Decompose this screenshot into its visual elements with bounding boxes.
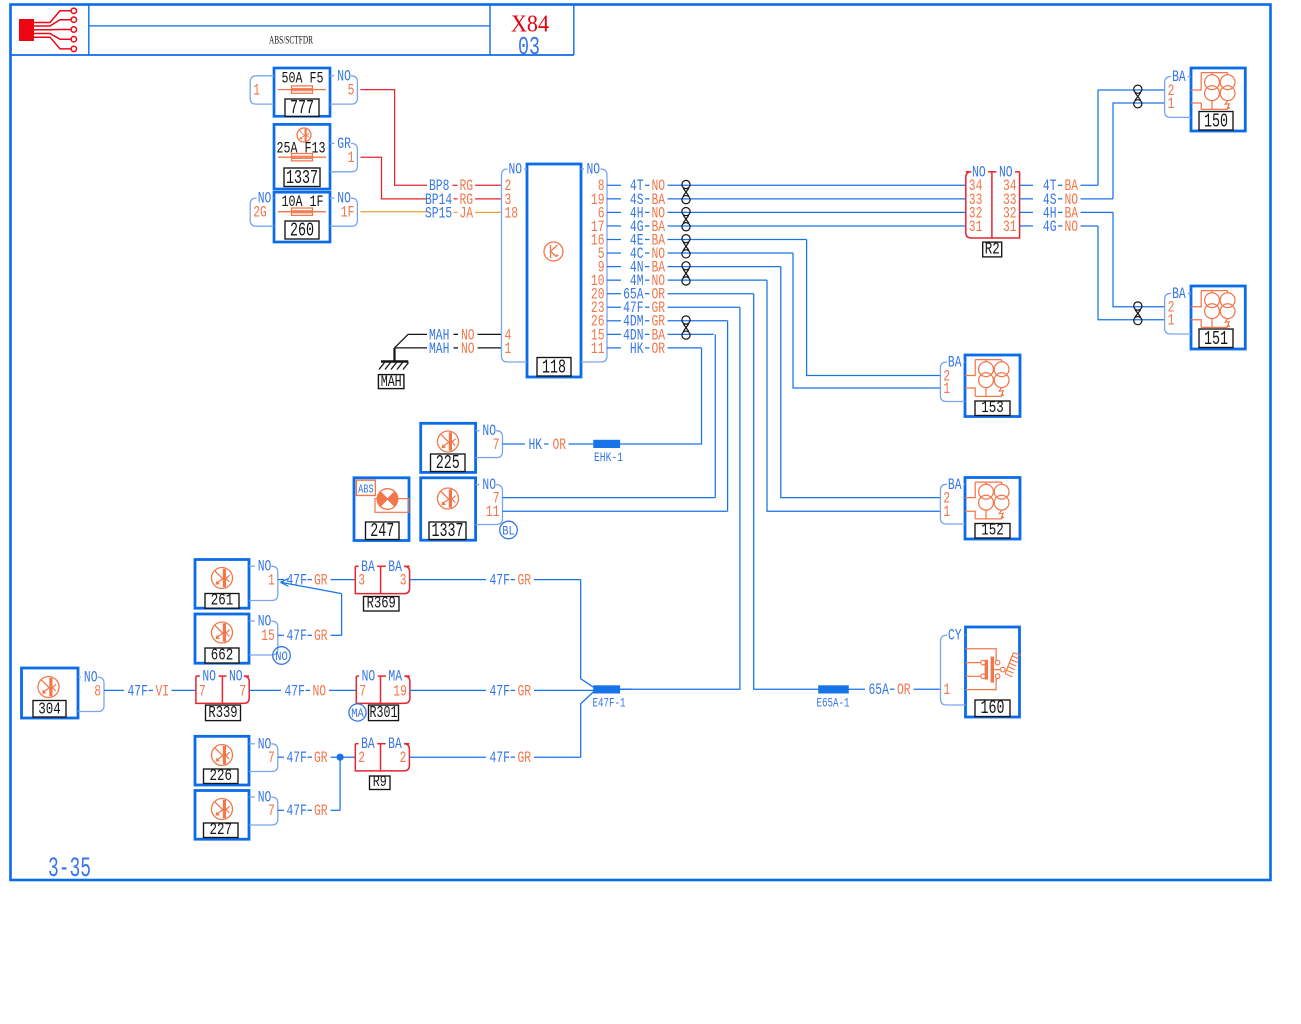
svg-text:JA: JA (460, 204, 474, 222)
svg-text:2: 2 (400, 749, 407, 767)
wire 4N-BA 118 pin9 to 152 pin2 (607, 259, 940, 498)
svg-text:227: 227 (210, 821, 233, 840)
svg-text:226: 226 (210, 767, 233, 786)
svg-text:19: 19 (393, 682, 407, 700)
label 1337 (284, 167, 320, 189)
connector 226 box (195, 736, 249, 785)
wheel sensor 152 box (965, 478, 1020, 540)
splice EHK-1 (594, 440, 623, 465)
svg-text:7: 7 (239, 682, 246, 700)
pin bracket 150 BA pins 2 1 (1165, 68, 1191, 117)
svg-text:R339: R339 (208, 704, 237, 723)
ABS tag in 247 (356, 480, 375, 496)
svg-text:47F: 47F (490, 682, 510, 700)
pin bracket 1337 NO pins 7 11 (476, 476, 503, 524)
wire 65A-OR splice E65A-1 to 160 pin1 (848, 681, 940, 699)
wire E47F-1 to 47F vertical (620, 688, 632, 690)
svg-text:MAH: MAH (381, 373, 402, 391)
wire BP14-RG from 1337 pin1 to 118 pin3 (360, 157, 501, 209)
svg-text:1: 1 (505, 340, 512, 358)
svg-text:160: 160 (981, 697, 1005, 719)
svg-text:MAH: MAH (429, 340, 449, 358)
svg-text:1337: 1337 (432, 520, 464, 542)
svg-text:1: 1 (1168, 312, 1175, 330)
wire 4DM-GR 118 pin26 to 1337 pin11 (607, 313, 728, 512)
svg-text:GR: GR (314, 749, 328, 767)
connector R369 (355, 558, 409, 594)
svg-text:7: 7 (359, 682, 366, 700)
svg-text:11: 11 (591, 340, 605, 358)
label 227 (204, 821, 239, 840)
fuse F13 box 1337 (274, 124, 330, 189)
svg-text:25A F13: 25A F13 (277, 140, 326, 158)
wire 4C-NO 118 pin5 to 153 pin1 (607, 245, 940, 388)
ignition key symbol in 118 (544, 242, 563, 261)
wire 47F-GR 226 pin7 to R9 (278, 749, 356, 767)
wire 4E-BA 118 pin16 to 153 pin2 (607, 231, 940, 375)
header logo cell (11, 5, 574, 56)
header logo harness icon (19, 8, 77, 52)
svg-text:7: 7 (199, 682, 206, 700)
twisted pair 4N/4M (682, 262, 690, 285)
svg-text:7: 7 (493, 436, 500, 454)
label R369 (364, 595, 400, 614)
svg-text:1: 1 (943, 503, 950, 521)
twisted pair at 150 (1134, 85, 1142, 108)
circled MA (349, 704, 366, 721)
connector 227 box (195, 791, 249, 840)
wire 1337 pin11 to 4DM vertical (503, 510, 728, 512)
connector 261 box (195, 560, 249, 609)
svg-text:15: 15 (261, 627, 275, 645)
svg-text:31: 31 (1003, 218, 1017, 236)
fuse 1F box 260 (274, 192, 330, 242)
pin bracket 225 NO pin 7 (476, 422, 503, 457)
wire 47F-GR R9 pin2 to splice E47F-1 (409, 692, 593, 768)
svg-text:47F: 47F (287, 749, 307, 767)
svg-text:151: 151 (1204, 328, 1228, 350)
svg-text:2G: 2G (253, 204, 267, 222)
svg-text:R301: R301 (370, 704, 398, 723)
wire 4G-BA 118 pin17 to R2 pin31 (607, 218, 966, 236)
svg-text:1: 1 (1168, 95, 1175, 113)
svg-text:50A F5: 50A F5 (282, 70, 324, 88)
svg-text:SP15: SP15 (425, 204, 452, 222)
svg-text:11: 11 (486, 503, 500, 521)
pin bracket 151 BA pins 2 1 (1165, 285, 1191, 334)
label R339 (206, 704, 241, 723)
svg-text:118: 118 (542, 357, 566, 379)
svg-text:1: 1 (348, 149, 355, 167)
wire 4H-BA R2 pin32 to 151 pin2 (1020, 204, 1165, 306)
label 247 (366, 520, 400, 542)
ABS computer 118 box (527, 164, 581, 377)
connector 304 box (22, 668, 79, 718)
svg-text:NO: NO (461, 340, 475, 358)
wire 47F-NO R339 to R301 (249, 682, 356, 700)
svg-text:304: 304 (38, 701, 61, 720)
label 152 (975, 522, 1010, 541)
svg-text:NO: NO (275, 649, 288, 664)
svg-text:5: 5 (348, 82, 355, 100)
pin bracket 304 NO pin 8 (78, 669, 104, 712)
socket symbol in 160 (966, 649, 1021, 690)
svg-text:VI: VI (156, 682, 170, 700)
label 662 (205, 647, 239, 666)
svg-text:HK: HK (529, 436, 543, 454)
wire 4S-NO R2 pin33 to 150 pin1 (1020, 103, 1165, 209)
connector R339 (196, 668, 249, 704)
svg-text:7: 7 (268, 749, 275, 767)
connector R301 (356, 668, 410, 704)
lamp symbol in 247 (375, 489, 409, 513)
svg-text:18: 18 (505, 204, 519, 222)
svg-text:47F: 47F (128, 682, 148, 700)
svg-text:3: 3 (400, 572, 407, 590)
junction merge arrow from 662 (281, 579, 342, 636)
label 1337 lower (429, 520, 466, 542)
svg-text:GR: GR (518, 572, 532, 590)
svg-text:3: 3 (358, 572, 365, 590)
wire 47F-GR 662 pin15 (278, 627, 342, 645)
svg-text:662: 662 (211, 647, 234, 666)
svg-text:261: 261 (211, 592, 234, 611)
label R9 (370, 773, 391, 791)
pin bracket 226 NO pin 7 (249, 735, 278, 771)
label MAH (378, 373, 404, 391)
connector 225 box (421, 423, 476, 472)
svg-text:ABS/SCTFDR: ABS/SCTFDR (269, 35, 313, 47)
wire 4M-NO 118 pin10 to 152 pin1 (607, 272, 940, 511)
wire HK-OR 118 pin11 to splice EHK-1 (607, 340, 702, 444)
connector R2 (966, 163, 1020, 238)
svg-text:GR: GR (314, 572, 328, 590)
pin bracket 777 right NO pin 5 (330, 67, 357, 104)
twisted pair at 151 (1134, 302, 1142, 325)
svg-text:GR: GR (314, 627, 328, 645)
svg-text:MA: MA (351, 706, 364, 721)
svg-text:153: 153 (981, 399, 1004, 418)
label 118 (537, 357, 571, 379)
svg-text:EHK-1: EHK-1 (594, 450, 623, 465)
pin bracket 160 CY pin 1 (941, 627, 966, 705)
label R301 (369, 704, 399, 723)
wire 47F-GR R369 pin3 to splice E47F-1 (410, 572, 594, 688)
label 151 (1199, 328, 1233, 350)
svg-text:R9: R9 (373, 773, 387, 791)
svg-text:3-35: 3-35 (48, 854, 91, 885)
wire 1337 pin7 to 4DN vertical (503, 497, 716, 499)
pin bracket 227 NO pin 7 (249, 789, 278, 826)
svg-text:777: 777 (290, 97, 314, 119)
wire 4H-NO 118 pin6 to R2 pin32 (607, 204, 966, 222)
pin bracket 153 BA pins 2 1 (940, 354, 965, 402)
fuse F5 box 777 (274, 68, 330, 116)
twisted pair 4DM/4DN (682, 316, 690, 339)
wire 47F-GR R301 pin19 to splice E47F-1 (410, 682, 594, 700)
svg-text:150: 150 (1204, 111, 1228, 133)
wire 4T-NO 118 pin8 to R2 pin34 (607, 177, 966, 195)
svg-text:1: 1 (943, 380, 950, 398)
splice E65A-1 (817, 686, 850, 711)
label R2 (983, 240, 1002, 259)
wire 4S-BA 118 pin19 to R2 pin33 (607, 191, 966, 209)
twisted pair 4E/4C (682, 235, 690, 258)
pin bracket 260 right NO pin 1F (330, 190, 357, 227)
label 160 (975, 697, 1010, 719)
label 777 (285, 97, 319, 119)
svg-text:HK: HK (630, 340, 644, 358)
svg-text:1: 1 (268, 572, 275, 590)
connector 1337 box (421, 478, 476, 540)
label 153 (975, 399, 1010, 418)
svg-text:BL: BL (502, 524, 515, 539)
wheel sensor 153 box (965, 355, 1020, 417)
wire 47F-VI 304 pin8 to R339 pin7 (104, 682, 196, 700)
svg-text:GR: GR (518, 749, 532, 767)
pin bracket 1337 right GR pin 1 (330, 135, 357, 172)
svg-text:2: 2 (358, 749, 365, 767)
svg-text:NO: NO (509, 161, 523, 179)
junction dot (337, 754, 344, 761)
wire 65A-OR 118 pin20 to splice E65A-1 (607, 286, 819, 690)
circled BL (500, 521, 518, 539)
connector 662 box (195, 614, 249, 663)
wire 47F-GR 118 pin23 to splice E47F-1 (607, 299, 740, 689)
wire 4DN-BA 118 pin15 to 1337 pin7 (607, 326, 715, 497)
svg-text:E65A-1: E65A-1 (817, 696, 850, 711)
svg-text:GR: GR (518, 682, 532, 700)
svg-text:CY: CY (948, 627, 962, 645)
circled NO (273, 647, 291, 665)
pin bracket 777 left pin 1 (250, 76, 274, 104)
label 261 (205, 592, 239, 611)
ground MAH (379, 334, 409, 369)
svg-text:7: 7 (268, 802, 275, 820)
svg-text:65A: 65A (869, 681, 890, 699)
svg-text:NO: NO (1065, 218, 1079, 236)
svg-text:1: 1 (944, 681, 951, 699)
label 260 (285, 220, 319, 242)
svg-text:1: 1 (253, 82, 260, 100)
pin bracket 260 left NO pin 2G (250, 190, 274, 227)
wire BP8-RG from 777 pin5 to 118 pin2 (360, 90, 501, 196)
label 150 (1199, 111, 1233, 133)
svg-text:OR: OR (553, 436, 567, 454)
svg-text:E47F-1: E47F-1 (593, 696, 626, 711)
svg-text:225: 225 (436, 452, 460, 474)
sheet number 3-35 (48, 854, 91, 885)
svg-text:GR: GR (314, 802, 328, 820)
svg-text:NO: NO (587, 161, 601, 179)
svg-text:47F: 47F (490, 572, 510, 590)
twisted pair 4T/4S (682, 180, 690, 203)
wire SP15-JA from 260 pin1F to 118 pin18 (360, 204, 501, 222)
svg-text:OR: OR (652, 340, 666, 358)
wire 47F-GR 227 pin7 to junction (278, 757, 340, 820)
header sheet cell X84 03 (511, 5, 574, 63)
warning lamp module 247 box (354, 478, 409, 541)
svg-text:R369: R369 (367, 595, 396, 614)
svg-text:1337: 1337 (286, 167, 318, 189)
svg-text:8: 8 (94, 682, 101, 700)
header title cell ABS/SCTFDR (89, 5, 490, 56)
svg-text:ABS: ABS (358, 483, 374, 497)
twisted pair 4H/4G (682, 208, 690, 231)
svg-text:247: 247 (370, 520, 394, 542)
svg-text:47F: 47F (287, 627, 307, 645)
svg-text:NO: NO (313, 682, 327, 700)
svg-text:1F: 1F (341, 204, 355, 222)
splice E47F-1 (593, 686, 626, 711)
118 left bracket NO (502, 161, 528, 363)
svg-text:31: 31 (969, 218, 983, 236)
wire 4T-BA R2 pin34 to 150 pin2 (1020, 90, 1165, 195)
svg-text:47F: 47F (285, 682, 305, 700)
label 226 (204, 767, 239, 786)
label 225 (431, 452, 466, 474)
wire MAH-NO to 118 pin4 (408, 326, 501, 344)
pin bracket 261 NO pin 1 (249, 558, 278, 601)
wire MAH-NO to 118 pin1 (395, 340, 502, 358)
wire 47F-GR 261 pin1 to R369 pin3 (278, 572, 356, 590)
wheel sensor 151 box (1191, 286, 1245, 349)
svg-text:152: 152 (981, 522, 1004, 541)
wheel sensor 150 box (1191, 68, 1245, 131)
svg-text:R2: R2 (985, 240, 1000, 259)
svg-text:47F: 47F (490, 749, 510, 767)
svg-text:OR: OR (897, 681, 911, 699)
svg-text:4G: 4G (1043, 218, 1057, 236)
connector R9 (355, 735, 409, 771)
pin bracket 152 BA pins 2 1 (940, 476, 965, 524)
diagnostic socket 160 box (966, 627, 1020, 717)
118 right bracket NO (581, 161, 607, 363)
svg-text:03: 03 (518, 32, 540, 62)
wire 4G-NO R2 pin31 to 151 pin1 (1020, 218, 1165, 320)
pin bracket 662 NO pin 15 (249, 613, 278, 656)
svg-text:260: 260 (290, 220, 314, 242)
svg-text:47F: 47F (287, 802, 307, 820)
label 304 (33, 701, 66, 720)
wire HK-OR 225 pin7 to splice EHK-1 (503, 436, 594, 454)
